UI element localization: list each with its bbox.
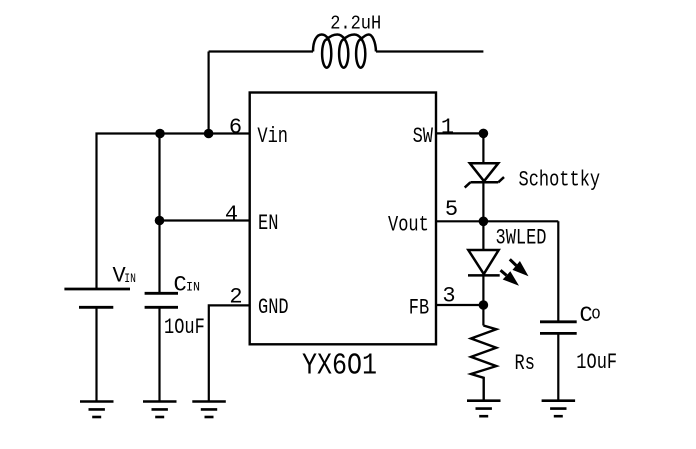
svg-text:YX6O1: YX6O1	[302, 348, 377, 383]
svg-text:EN: EN	[258, 211, 278, 236]
svg-text:GND: GND	[258, 295, 289, 320]
svg-text:Vin: Vin	[257, 124, 288, 149]
svg-text:6: 6	[229, 115, 242, 140]
svg-text:O: O	[592, 307, 601, 324]
svg-text:1OuF: 1OuF	[576, 350, 617, 375]
svg-text:4: 4	[225, 202, 238, 227]
svg-text:Rs: Rs	[515, 351, 535, 376]
svg-text:2.2uH: 2.2uH	[330, 13, 381, 35]
svg-text:5: 5	[445, 197, 458, 222]
svg-text:1: 1	[441, 115, 454, 140]
svg-text:IN: IN	[124, 271, 136, 286]
svg-text:1OuF: 1OuF	[164, 315, 205, 340]
svg-text:C: C	[174, 273, 187, 298]
svg-text:SW: SW	[413, 124, 434, 149]
svg-text:Schottky: Schottky	[519, 168, 601, 193]
svg-text:IN: IN	[186, 280, 200, 295]
svg-text:3WLED: 3WLED	[496, 226, 547, 251]
svg-text:FB: FB	[409, 295, 429, 320]
svg-text:2: 2	[229, 285, 242, 310]
svg-text:3: 3	[442, 284, 455, 309]
svg-text:Vout: Vout	[388, 212, 429, 237]
